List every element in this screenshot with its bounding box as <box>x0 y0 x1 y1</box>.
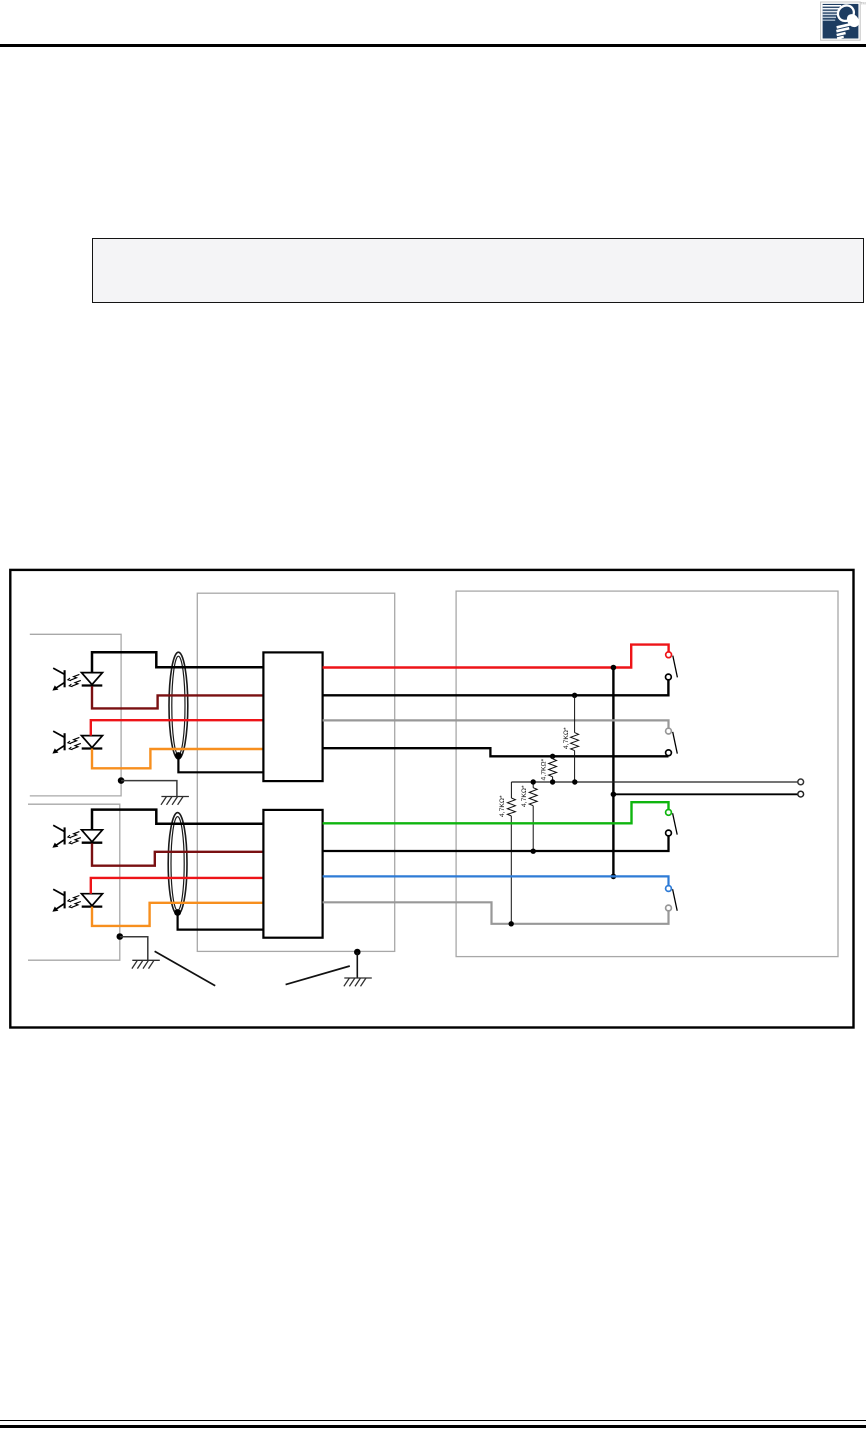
junction: controller box ground <box>354 949 361 956</box>
svg-text:4,7KΩ*: 4,7KΩ* <box>499 795 506 817</box>
wire: J2 gray output to switch S4 contact <box>323 902 669 924</box>
wire: encoder 1 common to ground <box>121 781 177 797</box>
switch S1 common contact (red) <box>666 652 672 658</box>
encoder 2 common junction <box>117 933 124 940</box>
wire: D1 anode to black lead (group1) <box>92 652 263 672</box>
wire: encoder 2 common to ground <box>120 937 148 961</box>
connector J1 <box>263 652 322 781</box>
wire: D3 anode to black lead (group2) <box>92 810 263 830</box>
ground: controller <box>344 978 372 986</box>
svg-text:4,7KΩ*: 4,7KΩ* <box>521 785 528 807</box>
junction: R4 on rail <box>531 779 536 784</box>
resistor R2 leads <box>552 756 554 782</box>
connector J2 <box>263 810 322 938</box>
switch S4 lever <box>673 889 678 910</box>
junction: R1 top on black wire <box>572 693 577 698</box>
encoder housing box 2 (gray, open left) <box>28 804 120 960</box>
junction: shield 2 to cable <box>174 909 181 916</box>
encoder housing box 1 (gray, open left) <box>30 634 121 796</box>
wire: D2 cathode orange lead (group1) <box>92 749 263 769</box>
wire: red lead to D2 anode (group1) <box>91 720 264 735</box>
footer thin rule <box>0 1420 866 1421</box>
resistor R1 leads <box>574 695 576 782</box>
cable shield ellipse 2 <box>168 813 187 915</box>
controller box (center gray) <box>197 593 394 951</box>
bus output wire (lower, to terminal) <box>613 793 797 795</box>
wire: J1 gray output to switch S2 common <box>323 720 669 727</box>
junction: R2 on rail <box>550 779 555 784</box>
switch S1 lever <box>673 656 678 678</box>
junction: shield 1 to cable <box>175 752 182 759</box>
cable shield ellipse 1 <box>169 652 188 759</box>
wire: J1 red output to switch S1 common <box>323 645 669 668</box>
opto sensor channel C (LED D3 + phototransistor Q3) <box>52 825 102 848</box>
wire: D1 cathode dark red lead (group1) <box>92 686 263 708</box>
switch S2 common contact (gray) <box>666 728 672 734</box>
footer thick rule <box>0 1425 866 1428</box>
wire: red lead to D4 anode (group2) <box>91 878 264 894</box>
opto sensor channel A (LED D1 + phototransistor Q1) <box>52 668 102 691</box>
pull-up rail wire (upper, to terminal) <box>511 781 797 783</box>
junction: R2 top on black wire 2 <box>550 754 555 759</box>
junction: bus to output wire <box>611 792 617 798</box>
opto sensor channel D (LED D4 + phototransistor Q4) <box>52 889 102 912</box>
switch S2 lever <box>673 732 678 754</box>
shield drain wire 2 <box>178 913 264 930</box>
junction: bus end on blue wire <box>611 874 617 880</box>
svg-text:TM: TM <box>860 1 865 5</box>
resistor R3 leads <box>510 782 512 924</box>
switch S2 contact (black) <box>666 750 672 756</box>
shield drain wire 1 <box>178 756 263 773</box>
wire: J2 blue output to switch S4 common <box>323 876 669 885</box>
wire: J2 black output to switch S3 contact <box>323 836 669 851</box>
ground: encoder 1 <box>161 797 189 805</box>
terminal circle: rail end <box>798 779 804 785</box>
resistor R4 4.7K <box>529 788 537 806</box>
encoder 1 common junction <box>118 777 125 784</box>
resistor R2 4.7K <box>549 759 557 777</box>
company logo (screw emblem) <box>818 0 866 45</box>
terminal box (right gray) <box>456 591 838 957</box>
resistor R1 4.7K <box>571 733 579 751</box>
switch S4 contact (gray) <box>666 905 672 911</box>
switch S3 contact (black) <box>666 830 672 836</box>
empty note box <box>92 238 864 303</box>
terminal circle: bus wire end <box>798 791 804 797</box>
switch S3 lever <box>673 813 678 834</box>
wire: J1 black output to switch S1 contact <box>323 680 669 695</box>
switch S1 contact (black) <box>666 674 672 680</box>
schematic figure <box>0 560 866 1040</box>
junction: R3 bottom on gray wire <box>509 921 514 926</box>
junction: bus on red wire <box>611 665 617 671</box>
wire: controller ground lead <box>356 952 358 978</box>
wire: J1 black output 2 to switch S2 contact <box>323 748 669 756</box>
svg-text:4,7KΩ*: 4,7KΩ* <box>540 758 547 780</box>
junction: R4 bottom on black wire 3 <box>531 849 536 854</box>
resistor R3 4.7K <box>507 798 515 816</box>
figure outer border <box>10 570 853 1028</box>
resistor R4 leads <box>532 782 534 851</box>
callout line 1 <box>155 951 216 986</box>
junction: R1 on rail <box>572 779 577 784</box>
header rule <box>0 44 866 47</box>
wire: D3 cathode dark red lead (group2) <box>92 843 263 865</box>
bus vertical wire <box>612 668 614 877</box>
opto sensor channel B (LED D2 + phototransistor Q2) <box>52 731 102 754</box>
ground: encoder 2 <box>132 960 160 968</box>
switch S3 common contact (green) <box>666 810 672 816</box>
switch S4 common contact (blue) <box>666 886 672 892</box>
svg-text:4,7KΩ*: 4,7KΩ* <box>563 727 570 749</box>
wire: J2 green output to switch S3 common <box>323 802 669 823</box>
wire: D4 cathode orange lead (group2) <box>92 903 263 926</box>
callout line 2 <box>286 966 350 985</box>
